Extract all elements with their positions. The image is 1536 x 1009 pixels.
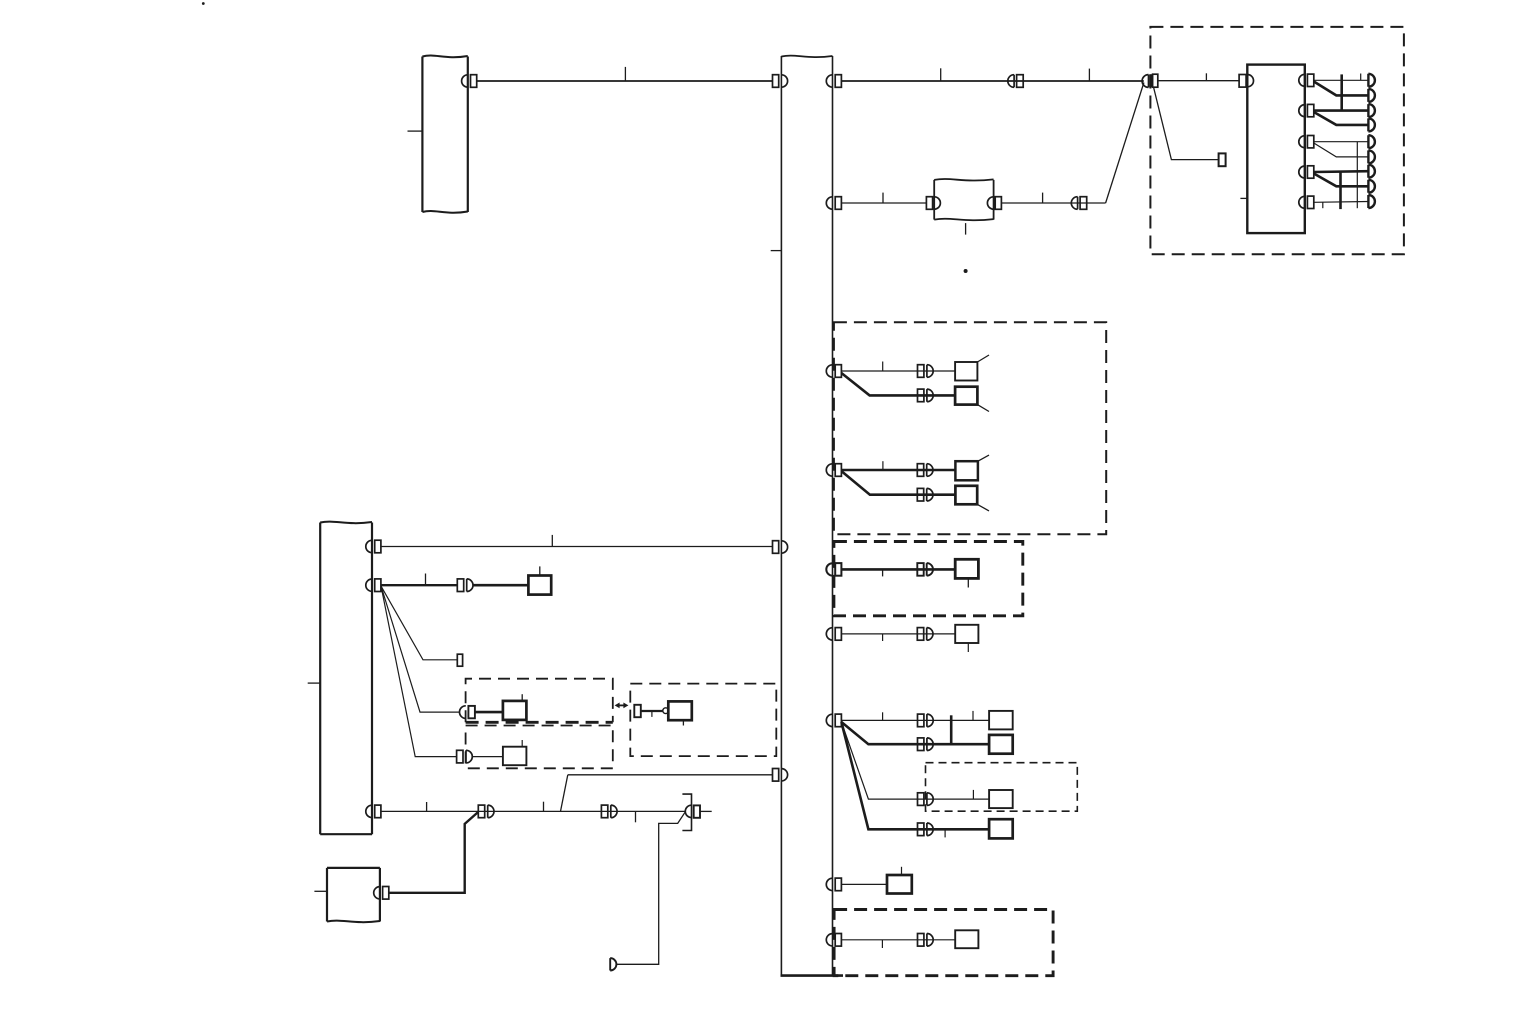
wire count tick (y811 a)	[426, 802, 428, 811]
wire in-line unit to diagonal	[1001, 202, 1105, 204]
connector half on harness C edge	[374, 887, 389, 900]
wire count tick on W2 b	[1088, 69, 1090, 81]
wire pair to relay box (y585)	[473, 584, 528, 587]
spare terminal rect	[457, 654, 462, 666]
branch terminal 6	[1368, 150, 1375, 163]
relay box (y585)	[528, 576, 551, 595]
junction block rectangle	[1247, 65, 1305, 234]
component box (y371-1)	[955, 362, 977, 381]
lead-out diagonal (y371-1)	[977, 355, 989, 362]
in-line connector pair (y720-2)	[918, 738, 934, 751]
dashed enclosure B (option)	[466, 726, 613, 769]
lead-out diagonal (y470-1)	[978, 455, 989, 461]
component box (y720-2)	[989, 735, 1013, 754]
wire y940	[841, 939, 955, 941]
stub tick below option C box	[682, 720, 684, 725]
tick on branch3 near box	[972, 790, 974, 799]
in-line connector pair (y470-2)	[917, 488, 933, 501]
wire y884	[841, 883, 887, 885]
bold joint bar pin1 area	[1340, 74, 1343, 110]
in-line connector pair (y940)	[918, 934, 934, 947]
connector half on harness B edge (y585)	[366, 579, 381, 592]
connector half on trunk left edge (W1)	[773, 75, 788, 88]
tick on pin1 wire	[1360, 74, 1362, 81]
wire y371 branch 1	[841, 370, 955, 372]
harness C (bottom left), torn-bottom rectangle	[327, 868, 380, 922]
wire y720 branch 1	[841, 719, 989, 721]
wire option B connector to box	[472, 756, 503, 758]
trunk reference leader stub	[771, 250, 782, 252]
dashed enclosure (door harness group)	[834, 322, 1106, 534]
bold joint bar pin4 area	[1339, 171, 1342, 209]
in-line connector pair (y720-4)	[918, 823, 934, 836]
wire junction to block	[1158, 80, 1239, 82]
stub tick above relay box	[539, 566, 541, 575]
connector half inside bracket	[685, 805, 700, 818]
component box (y720-3)	[989, 790, 1013, 808]
branch terminal 7	[1368, 165, 1375, 178]
option A component box	[503, 701, 527, 720]
branch terminal 4	[1368, 118, 1374, 131]
stub tick below box (y569)	[967, 578, 969, 587]
wire y634	[841, 633, 955, 635]
riser wire harness C to y811	[389, 812, 479, 893]
small dashed enclosure (y799)	[926, 763, 1078, 812]
connector half on trunk left edge (y775)	[773, 769, 788, 782]
bold dashed enclosure (y569)	[834, 542, 1023, 616]
connector half on trunk right edge (y634)	[826, 628, 841, 641]
bold joint bar between branch1 and branch2	[950, 715, 953, 744]
harness B (left middle), torn-top rectangle	[320, 522, 372, 835]
in-line connector pair (y371-2)	[918, 389, 934, 402]
in-line connector pair (y569)	[917, 563, 933, 576]
branch terminal 9	[1368, 195, 1374, 208]
wire count tick (y546)	[551, 535, 553, 547]
wire trunk to in-line unit	[841, 202, 926, 204]
option C coupler circle	[663, 708, 669, 714]
diagonal joining y775 to y811	[561, 775, 568, 812]
option C component box	[668, 701, 692, 720]
splice junction symbol	[1142, 74, 1158, 87]
connector half on harness A right edge	[462, 75, 477, 88]
option B connector pair	[457, 750, 473, 763]
tick on pin5 wire	[1322, 202, 1324, 208]
tick on option C wire	[651, 711, 653, 717]
in-line connector pair on W2	[1008, 75, 1023, 88]
wire count tick (y940)	[881, 940, 883, 948]
branch terminal 2	[1368, 89, 1375, 102]
component box (y884)	[887, 875, 912, 894]
connector half on trunk left edge (y547)	[773, 541, 788, 554]
connector rect before in-line unit	[926, 197, 932, 210]
connector half on trunk right edge (y569)	[826, 563, 841, 576]
wire y470 branch 2	[842, 472, 956, 495]
block pin1 wire to terminal1	[1314, 79, 1369, 81]
branch terminal 3	[1368, 104, 1375, 117]
dashed enclosure A (option)	[466, 679, 613, 723]
wire count tick (y811 b)	[543, 802, 545, 812]
stub tick above option A box	[521, 694, 523, 701]
block pin5 wire to terminal9	[1314, 201, 1369, 204]
tick on branch4	[944, 829, 946, 837]
component box (y470-1)	[955, 461, 978, 480]
dashed enclosure C (option)	[630, 684, 776, 757]
stray ink speck top left	[202, 2, 205, 5]
pin3 branch wire to terminal6	[1314, 143, 1369, 157]
component box (y634)	[955, 625, 978, 643]
connector half on trunk right edge (y470)	[826, 464, 841, 477]
connector half on trunk right edge (y203)	[826, 197, 841, 210]
wire count tick (y585)	[425, 574, 427, 586]
component box (y371-2)	[955, 387, 977, 405]
wire y720 branch 4	[841, 722, 989, 829]
branch wire to spare terminal	[381, 586, 457, 660]
block pin3 wire to terminal5	[1314, 141, 1369, 143]
branch wire junction to unused terminal	[1154, 87, 1219, 160]
junction block pin 1	[1299, 74, 1314, 86]
wire count tick (y634)	[882, 634, 884, 641]
wire y585 to pair	[381, 584, 457, 586]
in-line connector pair (y470-1)	[917, 464, 933, 477]
in-line connector pair (y720-3)	[918, 793, 934, 806]
wire W2 trunk to splice junction	[841, 80, 1143, 82]
branch wire junction down to lower wire	[1106, 83, 1144, 204]
connector half on harness B edge (y546)	[366, 540, 381, 553]
junction block left-edge stub	[1240, 197, 1247, 199]
harness C reference leader stub	[314, 890, 327, 892]
branch terminal 8	[1368, 180, 1375, 193]
wire y720 branch 3	[841, 722, 989, 799]
component box (y470-2)	[955, 486, 977, 505]
branch wire to option connector A	[381, 586, 460, 712]
tick on branch1 near box	[972, 711, 974, 721]
wire count tick (y470)	[882, 461, 884, 470]
wire y569	[841, 568, 955, 571]
junction block pin 5	[1299, 196, 1314, 208]
component box (y569)	[955, 559, 978, 578]
wire count tick on W1	[624, 67, 626, 81]
stub tick below in-line unit	[965, 223, 967, 235]
harness A (to engine compartment), torn-section rectangle	[422, 56, 467, 213]
connector half on trunk right edge (W2)	[826, 75, 841, 88]
wire count tick (y371)	[882, 362, 884, 372]
in-line connector pair (y371-1)	[918, 365, 934, 378]
lead-out diagonal (y470-2)	[977, 504, 989, 511]
pin2 branch wire to terminal4	[1314, 112, 1369, 125]
pin4 branch wire to terminal8	[1314, 174, 1369, 187]
stub tick below box (y634)	[967, 643, 969, 652]
block pin2 wire to terminal3	[1314, 109, 1369, 112]
connector rect after in-line unit	[995, 197, 1001, 210]
in-line connector pair (y585)	[457, 579, 473, 592]
reference dot below in-line unit	[964, 269, 968, 273]
inter-connect arrow between A and C	[615, 703, 629, 709]
junction block pin 3	[1299, 136, 1314, 148]
harness B reference leader stub	[308, 682, 321, 684]
wire harness B to trunk (y546)	[381, 546, 773, 548]
shield bracket at y811	[682, 794, 691, 830]
component box (y720-4)	[989, 819, 1013, 838]
in-line connector pair (y720-1)	[918, 714, 934, 727]
harness A reference leader stub	[408, 130, 423, 132]
unused terminal rect	[1219, 153, 1226, 166]
wire y720 branch 2	[841, 722, 989, 744]
main trunk harness, tall rectangle with torn top	[781, 56, 844, 976]
wire y811 main run	[381, 810, 685, 812]
wire y775 to trunk	[568, 774, 773, 776]
stub tick above option B box	[521, 740, 523, 747]
ground terminal D	[610, 958, 616, 970]
wire y470 branch 1	[841, 469, 955, 471]
connector half on harness B edge (y811)	[366, 805, 381, 818]
wire count tick (y203 a)	[882, 193, 884, 203]
connector half on trunk right edge (y940)	[826, 934, 841, 947]
lead-out diagonal (y371-2)	[977, 405, 989, 412]
wire count tick (y720-1)	[882, 712, 884, 720]
wire count tick on W2 a	[940, 68, 942, 80]
branch terminal 1	[1368, 74, 1375, 87]
in-line connector pair (y811 a)	[478, 805, 494, 818]
stub tick above box (y884)	[901, 867, 903, 875]
branch wire to option connector B	[381, 586, 457, 757]
junction block pin 2	[1299, 104, 1314, 116]
bold dashed enclosure (y940)	[834, 910, 1053, 976]
wire count tick (y569)	[882, 569, 884, 576]
block pin4 wire to terminal7	[1314, 170, 1369, 173]
connector half on trunk right edge (y371)	[826, 365, 841, 378]
pin1 branch wire to terminal2	[1314, 82, 1369, 96]
component box (y720-1)	[989, 711, 1013, 730]
drop wire bracket to ground terminal	[617, 812, 685, 964]
wire count tick (y203 b)	[1042, 193, 1044, 203]
connector on junction block left edge	[1239, 75, 1253, 88]
connector half on trunk right edge (y884)	[826, 878, 841, 891]
component box (y940)	[955, 930, 978, 948]
in-line connector pair (y634)	[917, 628, 933, 641]
option A connector half	[460, 706, 475, 719]
wire count tick (y811 c)	[635, 811, 637, 822]
option B component box	[503, 747, 527, 766]
in-line connector pair (y811 b)	[601, 805, 617, 818]
junction block pin 4	[1299, 166, 1314, 178]
option C terminal rect	[634, 705, 641, 717]
branch terminal 5	[1368, 135, 1375, 148]
wire option C	[641, 710, 663, 712]
wire y371 branch 2	[841, 373, 955, 395]
dashed enclosure (instrument panel unit)	[1150, 27, 1404, 254]
wire count tick near block	[1205, 73, 1207, 80]
wire option A connector to box	[475, 711, 503, 714]
in-line connector pair (y203)	[1071, 197, 1086, 210]
thin joint bar pin3 area	[1356, 142, 1358, 209]
stub wire right of bracket	[700, 810, 712, 812]
in-line unit torn box	[934, 179, 993, 220]
wire W1 harness A to trunk	[477, 80, 773, 82]
connector half on trunk right edge (y720)	[826, 714, 841, 727]
